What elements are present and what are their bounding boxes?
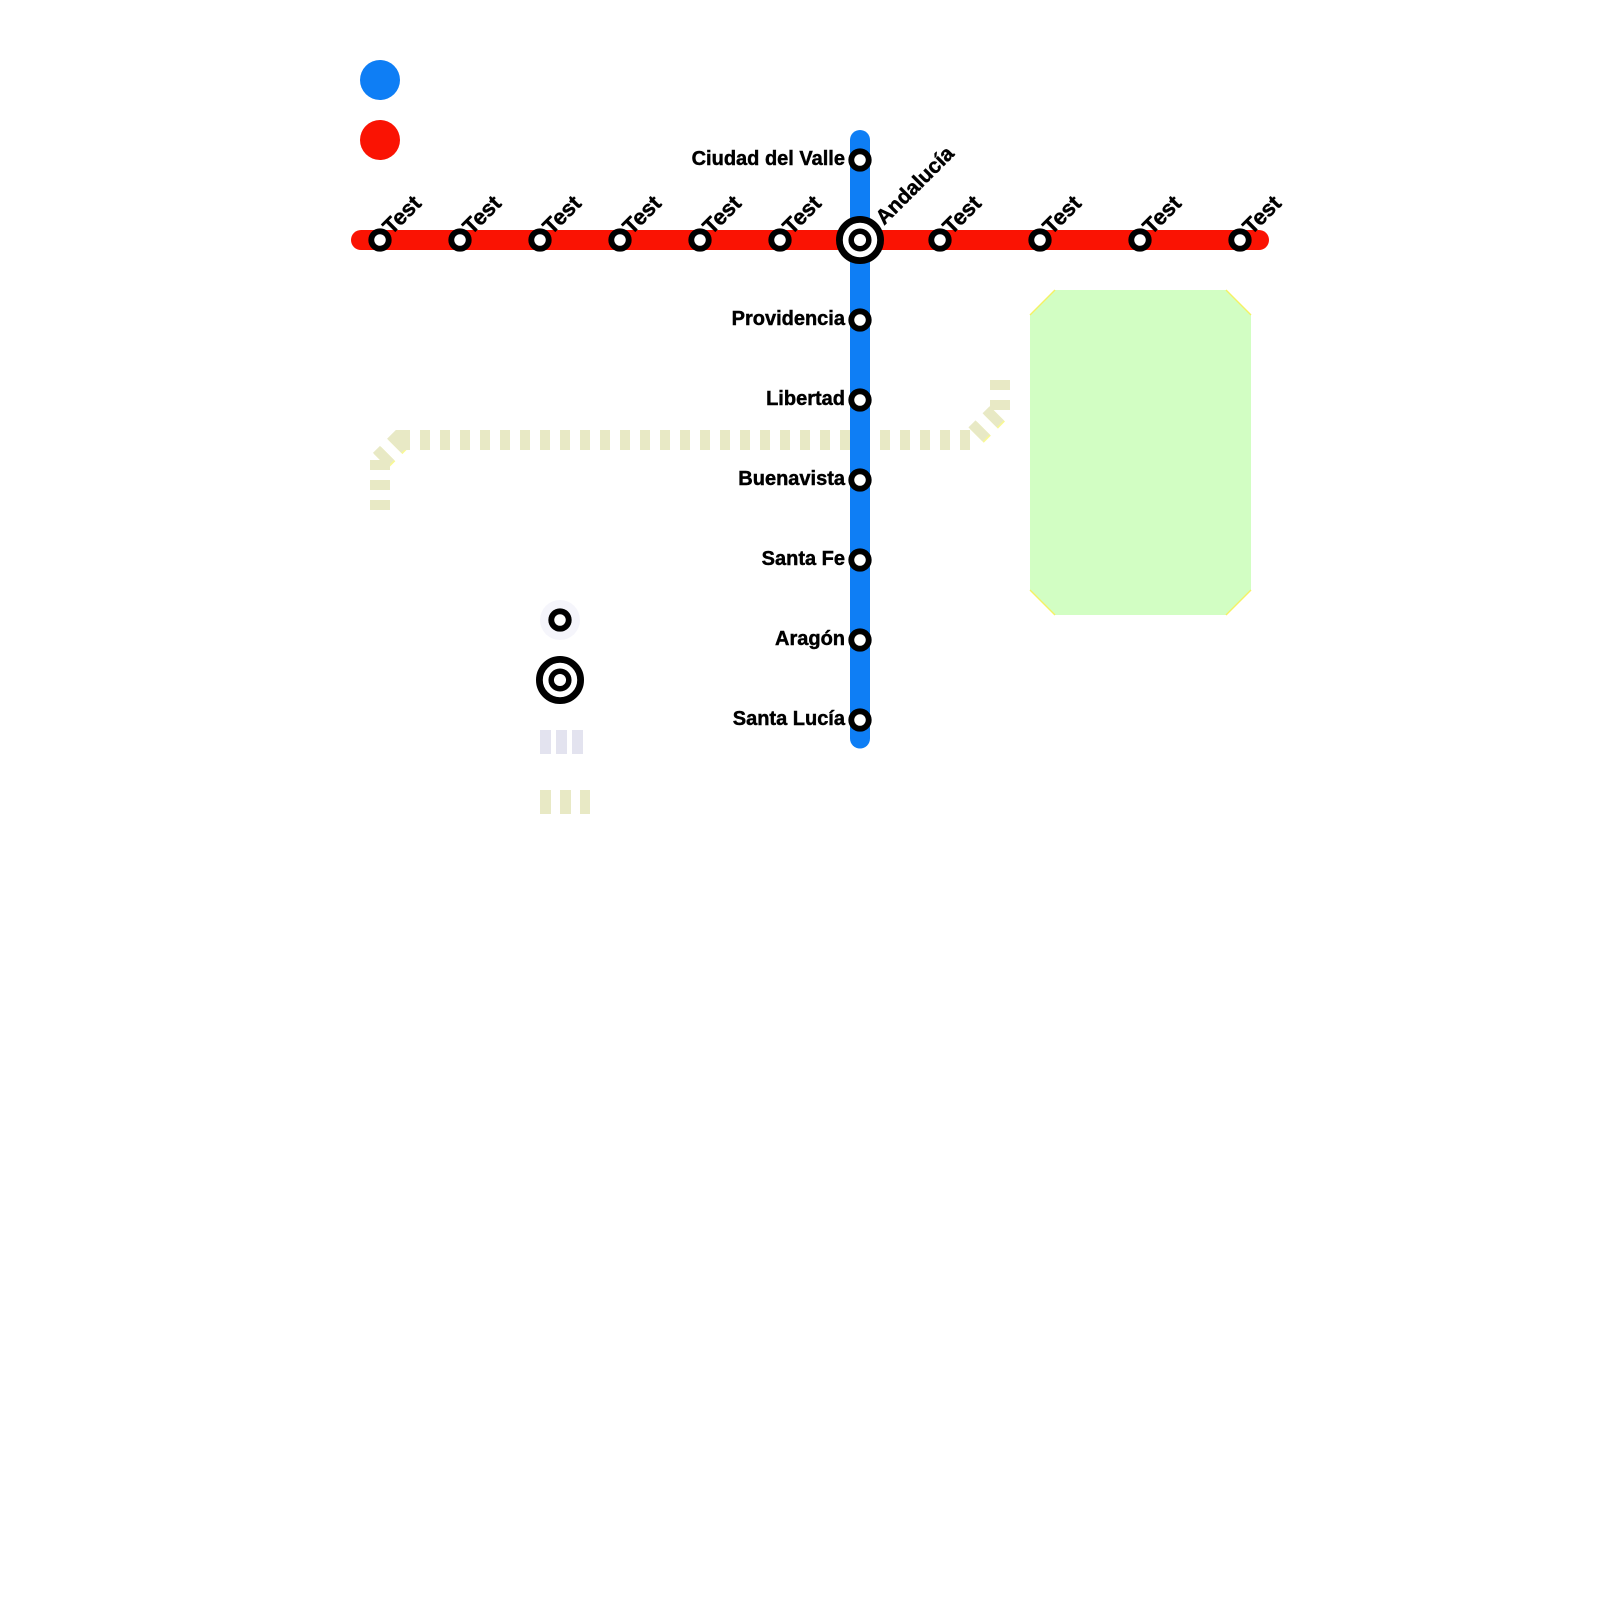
wire yellow underlay right diagonal (971, 411, 1001, 441)
rotated Test labels (left of interchange) (378, 142, 1287, 239)
legend lavender dashes (540, 730, 583, 754)
station Providencia (851, 311, 868, 328)
station Santa Fe (851, 551, 868, 568)
station Test 6 (771, 231, 788, 248)
station Test 7 (931, 231, 948, 248)
station Test 9 (1131, 231, 1148, 248)
wire construction left elbow diagonal (380, 440, 410, 460)
wire construction vertical right leg (990, 376, 1010, 410)
label Andalucia (871, 142, 958, 229)
svg-text:Libertad: Libertad (766, 388, 845, 410)
red line stations (371, 231, 1248, 248)
blue line station labels (692, 148, 846, 730)
interchange Andalucia (839, 219, 880, 260)
blue line (850, 140, 870, 739)
station Test 8 (1031, 231, 1048, 248)
station Test 2 (451, 231, 468, 248)
wire construction right elbow diagonal (970, 410, 1000, 440)
station Test 4 (611, 231, 628, 248)
svg-text:Buenavista: Buenavista (738, 468, 846, 490)
park green area (1030, 290, 1251, 615)
construction dashed line (tram under construction) (380, 376, 1001, 510)
wire construction horizontal right run (861, 430, 970, 450)
svg-text:Santa Lucía: Santa Lucía (733, 708, 846, 730)
station Ciudad del Valle (851, 151, 868, 168)
park bevel yellow edges (1030, 290, 1251, 615)
station Libertad (851, 391, 868, 408)
red line (361, 230, 1259, 250)
station Santa Lucia (851, 711, 868, 728)
wire yellow underlay left diagonal (381, 441, 411, 461)
station Buenavista (851, 471, 868, 488)
blue line stations (851, 151, 868, 728)
station Test 10 (1231, 231, 1248, 248)
svg-text:Ciudad del Valle: Ciudad del Valle (692, 148, 845, 170)
legend dot red (360, 120, 400, 160)
svg-text:Santa Fe: Santa Fe (762, 548, 845, 570)
svg-text:Aragón: Aragón (775, 628, 845, 650)
station Test 5 (691, 231, 708, 248)
legend khaki dashes (540, 790, 590, 814)
station Test 1 (371, 231, 388, 248)
wire construction vertical left leg (370, 460, 390, 510)
wire construction horizontal left run (400, 430, 869, 450)
legend interchange sample (539, 659, 580, 700)
svg-text:Providencia: Providencia (732, 308, 846, 330)
station Test 3 (531, 231, 548, 248)
legend dot blue (360, 60, 400, 100)
station Aragon (851, 631, 868, 648)
legend station sample on lavender disc (540, 600, 580, 640)
